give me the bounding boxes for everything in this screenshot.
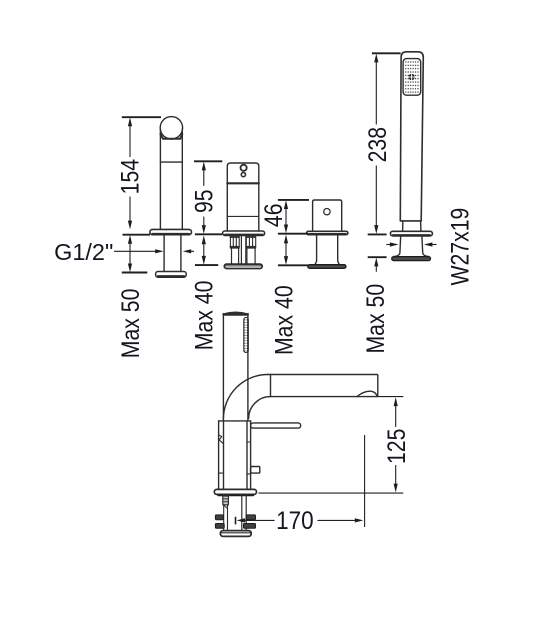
dim Max50 #4 line below: [375, 266, 377, 272]
svg-text:154: 154: [116, 159, 144, 195]
arrow Max50 #1 up: [128, 235, 132, 244]
svg-text:Max 50: Max 50: [116, 289, 144, 359]
arrow Max40 #3 down: [284, 256, 288, 265]
dim Max40 #2 line: [203, 244, 205, 256]
dim Max40 #3 bottom tick: [278, 264, 308, 266]
arrow G1/2 right-pointing: [155, 249, 164, 253]
svg-text:Max 40: Max 40: [270, 285, 298, 355]
dim 125 line: [395, 406, 397, 427]
side view bottom cap: [220, 531, 251, 537]
spout shank right edge: [180, 235, 182, 272]
handshower bottom flange: [392, 257, 431, 261]
dim Max50 #1 ticks: [123, 234, 151, 236]
handle bottom plate: [308, 265, 346, 269]
spout bottom mounting nut: [156, 272, 187, 278]
side view handshower tube top cap: [223, 313, 248, 315]
side view spout outer bend: [223, 375, 267, 419]
side view spout inner bend: [249, 397, 271, 419]
svg-text:95: 95: [190, 189, 218, 213]
dim 46 line: [285, 209, 287, 225]
arrow Max50 #4 up (below tick): [374, 258, 378, 267]
dim 46 ticks: [278, 199, 309, 201]
handshower escutcheon neck right: [422, 236, 429, 257]
arrow 125 down: [394, 484, 398, 493]
side view handshower tube left edge: [222, 314, 224, 421]
side view body inner left edge: [223, 421, 225, 490]
arrow 238 up: [374, 54, 378, 63]
deck level extension line: [259, 492, 404, 494]
valve deck flange: [223, 231, 265, 236]
side view shank: [241, 494, 243, 531]
side view spout joint line: [270, 375, 272, 397]
svg-text:Max 50: Max 50: [361, 284, 389, 354]
valve center tube: [241, 236, 245, 265]
side view lever: [251, 423, 301, 428]
arrow 238 down: [374, 225, 378, 234]
arrow 46 down: [284, 225, 288, 234]
dim 170 line: [245, 519, 275, 521]
valve body: [227, 163, 258, 231]
side view diverter tab: [251, 467, 260, 474]
dim Max50 #4 tick: [368, 256, 387, 258]
dim 238 ticks: [372, 52, 401, 54]
arrow Max40 #2 up: [202, 235, 206, 244]
dim 238 line: [375, 62, 377, 124]
handle deck flange: [307, 231, 348, 234]
handshower face screw: [408, 74, 414, 80]
arrow 125 up: [394, 397, 398, 406]
spout bottom extension line: [378, 396, 404, 398]
side view wing nuts: [215, 515, 255, 528]
valve bottom plate: [224, 264, 262, 268]
arrow G1/2 left-pointing: [183, 249, 192, 253]
valve right threaded stud: [246, 236, 255, 249]
handle body: [313, 200, 342, 231]
spout column right edge: [181, 129, 183, 229]
side view threaded rod: [223, 495, 225, 531]
dim 154 line: [129, 126, 131, 157]
handle hole: [324, 209, 330, 215]
dim 95 line: [203, 170, 205, 186]
handshower spray face: [403, 59, 421, 96]
spout column left edge: [159, 129, 161, 229]
arrow 154 down: [128, 221, 132, 230]
side view rod nut: [223, 496, 229, 505]
arrow W27 right-pointing: [390, 242, 399, 246]
dim 170 extension line: [364, 435, 366, 527]
W27x19 arrow lines: [386, 244, 391, 246]
arrow 170 right-pointing: [355, 518, 364, 522]
handle shank left edge: [315, 235, 317, 265]
svg-text:125: 125: [382, 429, 410, 464]
arrow Max40 #3 up: [284, 235, 288, 244]
arrow W27 left-pointing: [424, 242, 433, 246]
dim 95 ticks: [194, 160, 222, 162]
svg-text:Max 40: Max 40: [190, 281, 218, 351]
arrow 95 down: [202, 225, 206, 234]
dim Max40 #3 line: [285, 243, 287, 256]
handshower escutcheon neck left: [394, 236, 401, 257]
side view body inner right edge: [246, 421, 248, 490]
side view body outer left edge: [218, 421, 220, 490]
spout deck flange: [150, 229, 192, 234]
valve right inlet tube: [247, 248, 255, 264]
side view spout arm: [268, 375, 378, 397]
arrow Max40 #2 down: [202, 256, 206, 265]
dim 170 center tick: [235, 517, 237, 525]
svg-text:G1/2": G1/2": [54, 239, 113, 265]
dim 154 top tick: [122, 116, 161, 118]
arrow 46 up: [284, 200, 288, 209]
side view deck flange: [214, 489, 256, 494]
arrow 95 up: [202, 162, 206, 171]
arrow 154 up: [128, 117, 132, 126]
valve left inlet tube: [232, 248, 239, 264]
svg-text:46: 46: [259, 203, 287, 227]
side view handshower tube right edge: [247, 314, 249, 421]
side view body joint line: [219, 420, 251, 422]
spout shank left edge: [163, 235, 165, 272]
svg-text:170: 170: [276, 507, 314, 535]
svg-text:W27x19: W27x19: [446, 208, 474, 286]
side view aerator: [357, 391, 377, 396]
dim Max40 #2 bottom tick: [195, 264, 218, 266]
side view spray face strip: [244, 318, 249, 353]
handle shank right edge: [338, 235, 340, 265]
valve top hole: [241, 165, 247, 171]
arrow 170 left-pointing: [237, 518, 246, 522]
valve cap line: [227, 182, 258, 184]
valve left threaded stud: [230, 236, 239, 249]
handshower escutcheon flange: [390, 231, 432, 236]
valve small hole: [241, 173, 245, 177]
side view body outer right edge: [250, 421, 252, 490]
svg-text:238: 238: [363, 127, 391, 162]
spout front view: top ball: [160, 117, 182, 139]
valve section line: [227, 215, 258, 217]
spout column joint line: [160, 161, 182, 163]
handshower adapter: [402, 221, 404, 231]
side view body step lines: [219, 472, 224, 474]
handshower outline: [400, 52, 423, 221]
dim Max50 #1 line: [129, 244, 131, 264]
spout ball seat chord: [160, 134, 182, 139]
G1/2 leader lines: [114, 250, 155, 252]
arrow Max50 #1 down: [128, 264, 132, 273]
side view clip notch: [219, 435, 223, 443]
